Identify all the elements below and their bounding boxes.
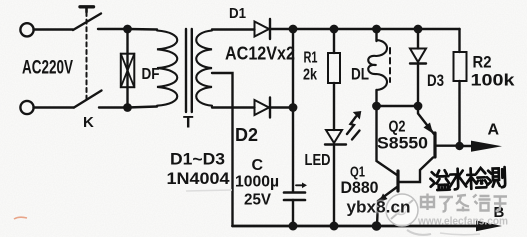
probe A shaft [463,145,480,148]
svg-text:2k: 2k [303,67,317,84]
component DF box [121,54,135,87]
terminal bottom-left [20,101,33,114]
svg-text:T: T [183,113,194,132]
svg-text:D1: D1 [229,5,246,22]
LED emission arrows [347,117,356,135]
svg-text:R2: R2 [473,53,492,72]
scan artifact top-right streak [186,190,232,191]
wire rectifier output column [292,29,294,192]
wire Q1 collector [377,106,398,175]
wire R2 to base node [458,81,460,146]
svg-text:1N4004: 1N4004 [167,170,231,188]
switch gang dashed link [86,12,88,99]
probe B arrowhead [476,221,502,232]
watermark ybx8.cn logo circle [386,194,418,226]
wire D3 column [417,29,419,49]
resistor R1 [328,53,340,83]
wire D2 to node [269,106,293,108]
hanzi 溢 [430,172,435,187]
wire top rail [269,28,460,31]
svg-text:S8550: S8550 [377,135,428,153]
svg-text:DF: DF [142,66,160,83]
diode D1 [255,22,270,37]
wire secondary center tap [212,73,233,226]
switch K bottom arm [74,91,102,108]
transistor Q1 bar [396,171,399,191]
wire DL column [375,29,377,41]
bottom rail ground [233,225,480,228]
probe A arrowhead [471,141,502,152]
LED diode symbol [326,130,342,143]
wire secondary bottom to D2 [212,106,255,108]
svg-text:A: A [488,122,500,139]
relay coil DL [368,40,387,90]
svg-text:D3: D3 [427,71,444,90]
wire R1 to LED [333,83,335,130]
Q2 emitter arrow [424,123,434,134]
wire R1 column [333,29,335,53]
wire R2 column [458,29,460,52]
wire [34,28,74,30]
diode D2 [255,100,270,115]
svg-text:D2: D2 [235,125,258,145]
diode D3 [410,49,426,63]
svg-text:AC12Vx2: AC12Vx2 [225,44,295,64]
relay core dashed [389,48,391,82]
svg-text:AC220V: AC220V [22,58,73,79]
node 溢水检测 caption (hand-drawn hanzi) [430,167,505,190]
transformer T primary winding [157,31,177,106]
svg-text:ybx8.cn: ybx8.cn [347,198,411,217]
wire to transformer primary [128,28,158,31]
svg-text:D880: D880 [341,179,379,197]
wire [34,106,75,108]
capacitor plus mark [296,184,303,186]
wire secondary top to D1 [212,28,255,30]
svg-text:C: C [252,157,264,174]
hanzi 测 [487,171,492,186]
wire mid rail [377,105,419,107]
svg-text:LED: LED [305,152,331,169]
switch link T bar [80,5,94,8]
wire [99,106,128,108]
wire DF column [126,29,128,108]
wire Q2 base to node [436,144,463,146]
watermark swirl below rail [407,230,431,235]
hanzi 水 [449,169,466,190]
wire DL bottom [375,90,377,106]
transformer T secondary winding [196,31,212,106]
svg-text:K: K [83,114,94,131]
capacitor C plates [284,191,305,194]
wire Q2 emitter [418,106,434,134]
svg-text:Q1: Q1 [350,164,365,181]
watermark 电子发烧友 (gray hanzi shapes) [421,194,507,212]
svg-text:25V: 25V [244,192,271,209]
svg-text:100k: 100k [471,71,516,90]
hanzi 检 [466,168,476,189]
Q1 emitter arrow [379,194,388,203]
wire Q1 base link [399,158,433,183]
transformer core [185,29,187,112]
svg-text:www.elecfans.com: www.elecfans.com [417,216,508,228]
wire LED to ground rail [333,146,335,226]
svg-text:Q2: Q2 [389,119,406,136]
svg-text:R1: R1 [304,50,318,67]
scan artifact orange squiggle [14,217,27,219]
svg-text:DL: DL [351,65,369,84]
wire [98,28,128,30]
svg-text:D1~D3: D1~D3 [170,151,225,169]
terminal top-left [20,23,33,36]
svg-text:1000µ: 1000µ [235,174,279,191]
wire Q1 emitter [377,187,397,226]
wire capacitor to ground rail [292,200,294,226]
transistor Q2 bar [433,133,436,157]
switch K top arm [73,14,101,31]
resistor R2 [454,52,467,81]
